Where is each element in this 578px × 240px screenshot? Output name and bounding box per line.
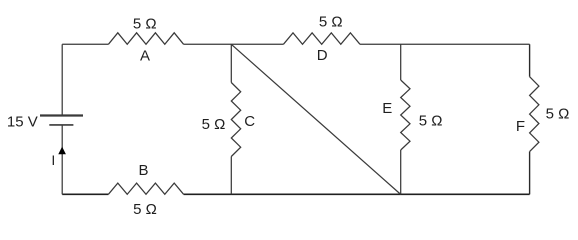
svg-text:5 Ω: 5 Ω [546,106,570,123]
wire top right segment [360,43,530,45]
svg-text:A: A [140,48,150,65]
node top-middle junction wire to C [230,44,232,82]
svg-text:F: F [516,118,525,135]
current arrow I [58,147,66,155]
svg-text:B: B [138,162,148,179]
diagonal wire from top-middle node to bottom-right node [231,44,400,194]
svg-text:5 Ω: 5 Ω [133,15,157,32]
svg-text:5 Ω: 5 Ω [202,116,226,133]
svg-text:I: I [51,152,55,168]
svg-text:C: C [244,113,255,130]
resistor E [401,80,410,150]
wire C bottom [230,157,232,195]
resistor A [108,33,183,45]
svg-text:E: E [382,100,392,117]
wire bottom left segment [62,193,108,195]
battery V1 short plate [49,124,73,126]
wire right edge lower [529,152,531,195]
resistor F [530,77,539,152]
resistor C [231,83,240,157]
wire bottom right long segment [184,193,530,195]
resistor D [283,33,360,45]
wire right edge upper [529,44,531,76]
svg-text:5 Ω: 5 Ω [133,201,157,218]
svg-text:5 Ω: 5 Ω [319,13,343,30]
svg-text:D: D [317,47,328,64]
wire top middle between A and D [184,43,284,45]
svg-text:5 Ω: 5 Ω [419,112,443,129]
wire left edge lower [61,125,63,194]
battery V1 long plate [40,114,83,116]
svg-text:15 V: 15 V [7,114,38,131]
wire top-left segment [62,43,108,45]
wire left edge upper [61,44,63,115]
resistor B [108,183,183,194]
wire bottom of E [400,150,402,194]
wire top of E [400,44,402,80]
